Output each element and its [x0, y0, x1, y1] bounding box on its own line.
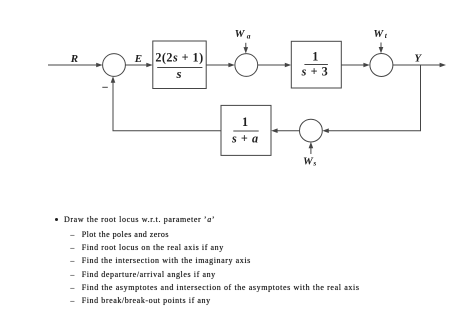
svg-text:Y: Y: [414, 53, 422, 65]
svg-text:1: 1: [312, 50, 318, 64]
svg-text:s: s: [312, 159, 316, 168]
svg-text:W: W: [373, 28, 384, 40]
svg-text:a: a: [247, 31, 251, 40]
svg-text:W: W: [235, 28, 246, 40]
svg-text:1: 1: [242, 115, 248, 129]
svg-text:R: R: [70, 53, 78, 65]
svg-text:W: W: [303, 155, 314, 167]
svg-text:s + 3: s + 3: [301, 65, 329, 79]
svg-text:s + a: s + a: [231, 132, 259, 146]
svg-text:2(2s + 1): 2(2s + 1): [155, 51, 203, 65]
svg-text:t: t: [385, 31, 388, 40]
svg-text:E: E: [134, 53, 142, 65]
svg-text:s: s: [175, 66, 181, 81]
